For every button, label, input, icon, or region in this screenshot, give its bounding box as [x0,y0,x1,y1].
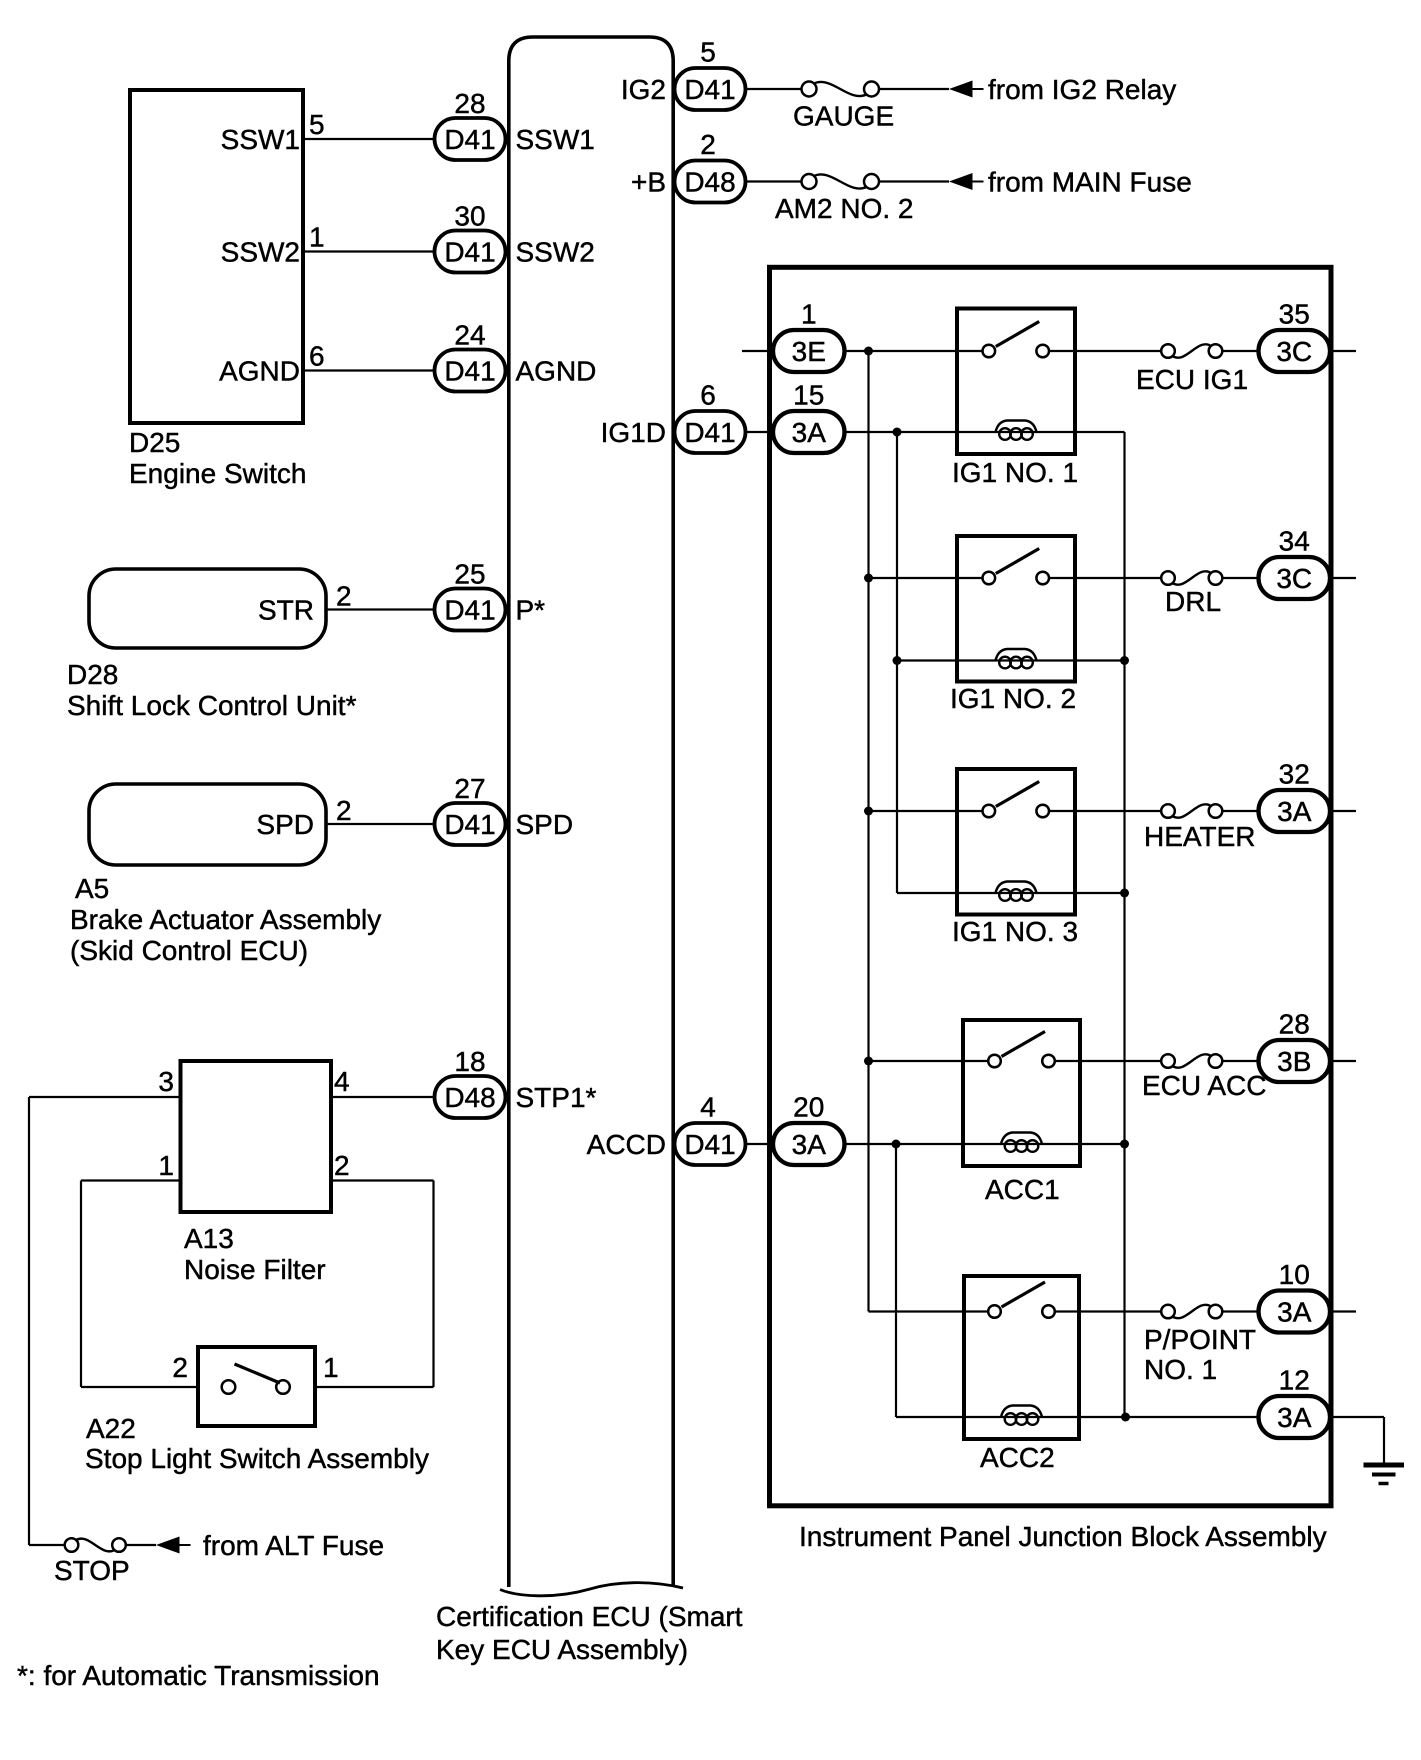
svg-text:IG1 NO. 1: IG1 NO. 1 [952,457,1078,488]
svg-text:D41: D41 [684,1129,735,1160]
svg-text:ECU IG1: ECU IG1 [1136,364,1248,395]
svg-text:5: 5 [700,37,716,68]
svg-text:D41: D41 [684,417,735,448]
svg-text:A22: A22 [86,1413,136,1444]
svg-text:P/POINT: P/POINT [1144,1324,1256,1355]
svg-text:SSW2: SSW2 [516,237,595,268]
svg-text:10: 10 [1279,1259,1310,1290]
svg-text:Stop Light Switch Assembly: Stop Light Switch Assembly [85,1443,429,1474]
svg-text:3A: 3A [792,1129,827,1160]
svg-text:Noise Filter: Noise Filter [184,1254,326,1285]
svg-text:STOP: STOP [54,1555,130,1586]
svg-text:3C: 3C [1276,336,1312,367]
svg-text:2: 2 [172,1352,188,1383]
svg-text:IG2: IG2 [621,74,666,105]
svg-text:1: 1 [309,222,325,253]
svg-text:Certification ECU (Smart: Certification ECU (Smart [436,1601,743,1632]
svg-text:1: 1 [158,1150,174,1181]
svg-text:6: 6 [700,380,716,411]
svg-text:Shift Lock Control Unit*: Shift Lock Control Unit* [67,690,357,721]
svg-text:SPD: SPD [256,809,314,840]
svg-text:D41: D41 [444,356,495,387]
svg-text:from IG2 Relay: from IG2 Relay [988,74,1176,105]
svg-text:+B: +B [631,167,666,198]
svg-text:28: 28 [1279,1009,1310,1040]
svg-text:15: 15 [793,380,824,411]
svg-text:28: 28 [454,88,485,119]
svg-text:2: 2 [336,581,352,612]
svg-text:Brake Actuator Assembly: Brake Actuator Assembly [70,904,381,935]
svg-text:AM2 NO. 2: AM2 NO. 2 [775,193,913,224]
svg-text:DRL: DRL [1165,586,1221,617]
svg-text:GAUGE: GAUGE [793,101,894,132]
svg-text:3A: 3A [1277,1402,1312,1433]
svg-text:2: 2 [700,129,716,160]
svg-text:30: 30 [454,201,485,232]
svg-text:24: 24 [454,320,485,351]
svg-text:20: 20 [793,1092,824,1123]
svg-text:4: 4 [700,1092,716,1123]
svg-text:D48: D48 [444,1082,495,1113]
svg-text:SSW2: SSW2 [221,237,300,268]
svg-text:3E: 3E [792,336,826,367]
svg-text:18: 18 [454,1046,485,1077]
svg-text:from MAIN Fuse: from MAIN Fuse [988,167,1192,198]
svg-text:(Skid Control ECU): (Skid Control ECU) [70,935,308,966]
svg-text:D41: D41 [444,124,495,155]
svg-text:3A: 3A [792,417,827,448]
svg-text:4: 4 [334,1066,350,1097]
svg-text:2: 2 [334,1150,350,1181]
svg-text:34: 34 [1279,526,1310,557]
svg-text:from ALT Fuse: from ALT Fuse [203,1530,384,1561]
svg-text:2: 2 [336,795,352,826]
svg-text:ACC2: ACC2 [980,1442,1055,1473]
svg-text:6: 6 [309,341,325,372]
svg-text:HEATER: HEATER [1144,821,1256,852]
svg-text:3: 3 [158,1066,174,1097]
svg-text:AGND: AGND [516,356,597,387]
svg-text:1: 1 [801,299,817,330]
svg-text:ACC1: ACC1 [985,1174,1060,1205]
svg-text:ECU ACC: ECU ACC [1142,1070,1266,1101]
svg-text:D25: D25 [129,427,180,458]
svg-text:A5: A5 [75,873,109,904]
svg-text:SPD: SPD [516,809,574,840]
svg-text:Engine Switch: Engine Switch [129,458,306,489]
svg-text:Key ECU Assembly): Key ECU Assembly) [436,1634,688,1665]
svg-text:NO. 1: NO. 1 [1144,1354,1217,1385]
svg-text:12: 12 [1279,1365,1310,1396]
svg-text:SSW1: SSW1 [516,124,595,155]
svg-text:D41: D41 [684,74,735,105]
svg-text:D41: D41 [444,237,495,268]
svg-text:*: for Automatic Transmission: *: for Automatic Transmission [17,1660,380,1691]
svg-text:3A: 3A [1277,1297,1312,1328]
svg-text:D41: D41 [444,595,495,626]
svg-text:27: 27 [454,773,485,804]
svg-text:A13: A13 [184,1223,234,1254]
svg-text:D41: D41 [444,809,495,840]
svg-text:32: 32 [1279,759,1310,790]
svg-text:IG1D: IG1D [601,417,666,448]
svg-text:AGND: AGND [219,356,300,387]
svg-text:1: 1 [323,1352,339,1383]
svg-text:3A: 3A [1277,796,1312,827]
svg-text:25: 25 [454,559,485,590]
svg-text:IG1 NO. 2: IG1 NO. 2 [950,683,1076,714]
svg-text:Instrument Panel Junction Bloc: Instrument Panel Junction Block Assembly [799,1521,1327,1552]
svg-text:D48: D48 [684,167,735,198]
svg-text:3C: 3C [1276,563,1312,594]
svg-text:35: 35 [1279,299,1310,330]
svg-text:P*: P* [516,595,546,626]
svg-text:3B: 3B [1277,1046,1311,1077]
svg-text:5: 5 [309,109,325,140]
svg-text:D28: D28 [67,659,118,690]
svg-text:STP1*: STP1* [516,1082,597,1113]
svg-text:ACCD: ACCD [587,1129,666,1160]
svg-text:STR: STR [258,595,314,626]
svg-text:IG1 NO. 3: IG1 NO. 3 [952,916,1078,947]
svg-text:SSW1: SSW1 [221,124,300,155]
